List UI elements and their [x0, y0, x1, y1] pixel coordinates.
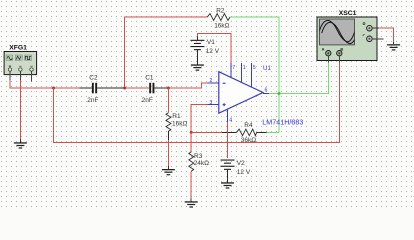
wire V1 plus to op-amp pin 7 [197, 33, 230, 63]
svg-text:LM741H/883: LM741H/883 [262, 119, 303, 127]
svg-text:R3: R3 [194, 153, 203, 160]
capacitor C1 [149, 83, 154, 94]
label R3 [194, 153, 203, 160]
wire op-amp pin 3 to node [191, 105, 207, 133]
pin number 3 [209, 100, 212, 106]
wire R4 left lead [191, 131, 236, 133]
ground below V1 [191, 64, 204, 70]
wire C2 right lead [97, 87, 125, 89]
wire R1 bottom lead to ground [167, 131, 169, 169]
svg-text:C2: C2 [89, 75, 98, 82]
junction bus/R2 riser [123, 87, 126, 90]
label R3 value 24k [194, 160, 209, 167]
wire scope G terminal to ground [379, 28, 394, 44]
svg-text:R2: R2 [216, 7, 225, 14]
junction pin3 node / R4 / R3 [190, 131, 193, 134]
wire R2 output green net [230, 17, 279, 132]
label R4 [244, 122, 253, 129]
resistor R4 [237, 129, 257, 136]
label R1 value 16k [172, 120, 187, 127]
ground below XFG1 [14, 142, 27, 148]
pin number 5 [253, 65, 256, 71]
label V2 value 12 V [237, 169, 251, 176]
svg-text:2: 2 [209, 78, 212, 84]
op-amp pin 6 output stub [263, 93, 269, 95]
svg-text:12 V: 12 V [237, 169, 251, 176]
dc source V1 [190, 37, 204, 65]
pin number 4 [229, 118, 232, 124]
junction bus/XFG1 [52, 87, 55, 90]
op-amp non-inverting input marker [223, 103, 226, 106]
label R2 value 16k [214, 22, 229, 29]
wire XFG1 plus terminal to input bus [10, 80, 80, 88]
dc source V2 [221, 160, 235, 183]
wire feedback riser to R2 [125, 17, 208, 88]
op-amp pin 2 stub [208, 82, 219, 84]
svg-text:16kΩ: 16kΩ [214, 22, 229, 29]
svg-text:3: 3 [209, 100, 212, 106]
label XFG1 [9, 45, 27, 52]
svg-text:12 V: 12 V [206, 48, 220, 55]
svg-text:B: B [340, 47, 343, 52]
wire R4 right lead [257, 131, 267, 133]
wire R3 top lead [190, 132, 192, 152]
svg-text:16kΩ: 16kΩ [172, 120, 187, 127]
pin number 1 [243, 65, 246, 71]
wire op-amp pin 4 to V2 [227, 122, 229, 158]
svg-text:R4: R4 [244, 122, 253, 129]
label V2 [237, 160, 245, 167]
svg-text:2nF: 2nF [142, 97, 153, 104]
label XSC1 [339, 10, 357, 17]
op-amp pin 4 stub [227, 109, 229, 122]
svg-text:2nF: 2nF [87, 97, 98, 104]
svg-text:R1: R1 [172, 113, 181, 120]
wire R3 bottom lead to ground [190, 171, 192, 201]
label C1 [145, 75, 154, 82]
op-amp pin 7 stub [230, 63, 232, 78]
label C2 value 2nF [87, 97, 98, 104]
wire green link to R4 [267, 131, 279, 133]
wire bus to op-amp pin 2 with jog [168, 83, 207, 88]
op-amp pin 1 stub [241, 63, 243, 82]
wire C2 left lead [80, 87, 92, 89]
ground below R3 [185, 201, 198, 207]
wire XFG1 common to ground [19, 80, 21, 142]
label V1 [207, 39, 215, 46]
resistor R3 [189, 152, 194, 171]
ground below R1 [162, 169, 175, 175]
label C2 [89, 75, 98, 82]
junction output net [278, 92, 281, 95]
resistor R1 [166, 113, 171, 132]
svg-text:7: 7 [232, 65, 235, 71]
label V1 value 12 V [206, 48, 220, 55]
wire op-amp output to scope A [269, 62, 329, 93]
ground below V2 [221, 182, 234, 188]
op-amp pin 5 stub [251, 63, 253, 87]
svg-text:4: 4 [229, 118, 232, 124]
ground right of XSC1 [387, 44, 400, 50]
svg-text:U1: U1 [263, 65, 271, 72]
resistor R2 [207, 14, 230, 21]
svg-text:V1: V1 [207, 39, 215, 46]
svg-text:5: 5 [253, 65, 256, 71]
op-amp pin 3 stub [208, 104, 219, 106]
pin number 7 [232, 65, 235, 71]
svg-text:XSC1: XSC1 [339, 10, 357, 17]
op-amp inverting input marker [223, 83, 226, 84]
oscilloscope XSC1 [317, 17, 384, 62]
pin number 2 [209, 78, 212, 84]
svg-text:36kΩ: 36kΩ [241, 137, 256, 144]
wire bus C2 to C1 [125, 87, 150, 89]
wire C1 right lead [154, 87, 168, 89]
svg-text:1: 1 [243, 65, 246, 71]
function generator XFG1 [4, 52, 37, 82]
label U1 [263, 65, 271, 72]
svg-text:24kΩ: 24kΩ [194, 160, 209, 167]
pin number 6 [265, 87, 268, 93]
wire node B: bus to oscilloscope channel B [54, 62, 340, 142]
op-amp U1 LM741H/883 [219, 72, 263, 114]
junction bus/R1 [167, 87, 170, 90]
label LM741H/883 [262, 119, 303, 127]
label C1 value 2nF [142, 97, 153, 104]
wire scope A stub to output net [328, 62, 330, 93]
svg-text:V2: V2 [237, 160, 245, 167]
wire R1 top lead [167, 88, 169, 113]
label R2 [216, 7, 225, 14]
svg-text:A: A [322, 47, 325, 52]
svg-text:6: 6 [265, 87, 268, 93]
label R4 value 36k [241, 137, 256, 144]
label R1 [172, 113, 181, 120]
svg-text:C1: C1 [145, 75, 154, 82]
svg-text:XFG1: XFG1 [9, 45, 27, 52]
capacitor C2 [92, 83, 97, 94]
